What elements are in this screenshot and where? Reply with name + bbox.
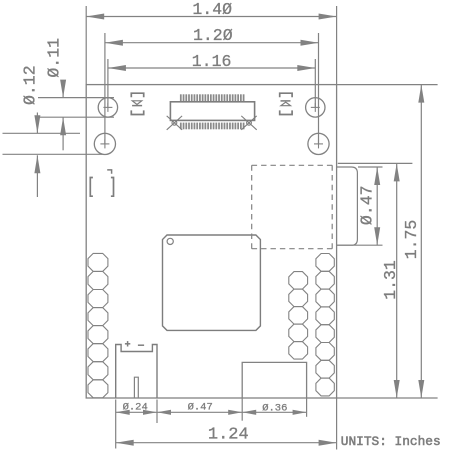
svg-text:1.24: 1.24 (208, 425, 249, 444)
chip U1 outline (163, 235, 261, 330)
connector J1 right polarity circle with cross (241, 116, 256, 130)
connector J1 top pin row (180, 94, 245, 101)
dimension 1.75 extension lines (337, 84, 438, 86)
svg-text:1.2Ø: 1.2Ø (193, 26, 233, 45)
dimension 1.16 extension lines (107, 59, 109, 107)
left edge castellated pads (8 octagons) (88, 253, 108, 397)
dimension 0.11 extension lines (38, 97, 114, 99)
battery pin slot (134, 377, 138, 398)
mounting hole top-left (dia 0.11) (98, 98, 117, 117)
svg-text:1.31: 1.31 (381, 260, 400, 300)
dimension 1.20 line (105, 42, 319, 44)
chip antenna outline (337, 167, 358, 245)
dimension 0.47 extension lines (358, 166, 383, 168)
svg-text:Ø.47: Ø.47 (358, 185, 377, 225)
dimension line 0.24/0.47/0.36 (116, 411, 307, 413)
battery connector outline (116, 345, 157, 399)
dimension 0.11 line with arrows (62, 82, 64, 98)
dimension 1.24 line (116, 442, 337, 444)
right inner castellated pads (5 octagons) (289, 272, 308, 360)
connector J1 left polarity circle with cross (167, 116, 182, 130)
dimension 1.31 line (396, 163, 398, 398)
bottom edge connector rectangle (242, 362, 306, 397)
mounting hole top-right (dia 0.11) (306, 98, 325, 117)
right orientation marker [M] rotated (280, 93, 292, 97)
antenna keepout dashed rectangle (252, 165, 333, 248)
mounting hole bottom-right (dia 0.12) (308, 133, 329, 154)
bottom dimension extension lines (115, 400, 117, 449)
svg-text:1.16: 1.16 (192, 52, 232, 71)
chip U1 pin-1 dot (167, 238, 173, 244)
battery minus mark (138, 344, 144, 346)
dimension 0.47 line (376, 167, 378, 245)
connector J1 body (170, 102, 254, 121)
dimension 1.40 extension lines (85, 6, 87, 85)
right outer edge castellated pads (8 octagons) (316, 254, 334, 396)
small component footprint brackets (90, 178, 113, 197)
battery plus mark (125, 341, 130, 346)
svg-text:Ø.24: Ø.24 (123, 402, 148, 414)
pin-1 corner mark (107, 170, 111, 174)
svg-text:Ø.36: Ø.36 (262, 402, 287, 414)
svg-text:Ø.12: Ø.12 (21, 65, 40, 105)
dimension 1.75 line (420, 85, 422, 398)
PCB board outline (86, 85, 336, 398)
dimension 1.20 extension lines (104, 33, 106, 144)
dimension 1.40 line (86, 16, 336, 18)
dimension 1.16 line (108, 67, 315, 69)
svg-text:UNITS: Inches: UNITS: Inches (341, 434, 441, 449)
dimension 0.12 line with arrows (36, 113, 38, 134)
connector J1 bottom pin row (180, 123, 245, 130)
svg-text:1.75: 1.75 (402, 220, 421, 260)
svg-text:1.4Ø: 1.4Ø (192, 0, 232, 19)
mounting hole bottom-left (dia 0.12) (94, 133, 115, 154)
dimension 1.31 extension line top (338, 162, 413, 164)
left orientation marker [M] rotated (131, 93, 143, 97)
svg-text:Ø.47: Ø.47 (188, 402, 213, 414)
svg-text:Ø.11: Ø.11 (45, 38, 64, 78)
dimension 0.12 extension lines (3, 132, 81, 134)
